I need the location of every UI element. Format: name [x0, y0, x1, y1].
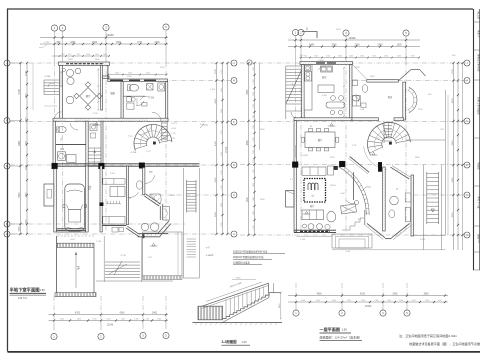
svg-text:1760: 1760: [221, 70, 223, 74]
bedroom bottom wall: [394, 118, 404, 121]
door arc bath: [128, 192, 139, 197]
svg-text:1300: 1300: [410, 56, 414, 58]
outdoor stair along west wall: [286, 66, 302, 119]
svg-text:650: 650: [253, 160, 255, 163]
svg-text:1200: 1200: [253, 125, 255, 129]
right plan: wall under kitchen: [294, 118, 352, 121]
svg-text:5800: 5800: [19, 192, 21, 198]
svg-text:3-3剖面图: 3-3剖面图: [222, 339, 238, 344]
svg-text:3000: 3000: [215, 177, 217, 183]
svg-text:-1.750: -1.750: [92, 113, 99, 115]
svg-text:2260: 2260: [354, 45, 360, 47]
svg-text:1400: 1400: [157, 319, 161, 321]
right plan bottom dimension chains: [288, 294, 448, 309]
scattered tiny annotation texts: [68, 29, 456, 259]
right plan axis circles top: [292, 29, 409, 36]
svg-text:1800: 1800: [77, 319, 81, 321]
svg-text:4000: 4000: [452, 212, 454, 218]
svg-text:1760: 1760: [452, 69, 454, 75]
closet south wall: [102, 224, 126, 226]
svg-text:1400: 1400: [301, 300, 305, 302]
svg-text:2400: 2400: [25, 117, 27, 123]
left plan: bottom wall of middle band: [53, 164, 199, 166]
svg-text:3800: 3800: [423, 294, 429, 296]
svg-text:2400: 2400: [25, 219, 27, 225]
svg-text:=2450: =2450: [171, 128, 176, 130]
svg-text:1400: 1400: [253, 183, 255, 187]
svg-text:1.4B: 1.4B: [200, 124, 205, 126]
garage west wall: [54, 169, 57, 232]
left plan axis circles bottom: [51, 332, 169, 339]
notes bottom right: [399, 333, 480, 346]
svg-text:1200: 1200: [253, 104, 255, 108]
svg-text:2.2M: 2.2M: [110, 173, 115, 175]
svg-text:1.130: 1.130: [44, 42, 50, 44]
stair section: railing with balusters: [202, 283, 281, 317]
svg-text:2440: 2440: [309, 45, 315, 47]
svg-text:13440: 13440: [348, 36, 356, 40]
chain segment texts additional: [60, 54, 442, 321]
bathroom bay: lower diagonal and south wall: [126, 221, 171, 238]
svg-text:1.4B: 1.4B: [360, 109, 365, 111]
svg-text:4460: 4460: [19, 140, 21, 146]
entry steps below plan: [96, 236, 173, 282]
right plan axis circles right column: [464, 60, 470, 238]
svg-text:1240: 1240: [314, 56, 318, 58]
left plan: top-right wall band with windows: [108, 79, 168, 82]
top-right bedroom walls: [353, 65, 426, 120]
internal dim line living room: [97, 68, 99, 111]
right plan: top wall with window band: [300, 62, 353, 65]
bedroom closet and bath fixtures: [353, 85, 368, 108]
svg-text:2.130: 2.130: [171, 133, 176, 135]
svg-text:D: D: [6, 165, 8, 168]
svg-text:2280: 2280: [70, 42, 76, 44]
svg-text:14040: 14040: [106, 33, 114, 37]
svg-text:2150: 2150: [221, 152, 223, 156]
left plan right dimension chains: [215, 62, 229, 235]
svg-text:1300: 1300: [253, 137, 255, 141]
title block strip right edge: [473, 9, 480, 270]
svg-text:1200: 1200: [253, 150, 255, 154]
small label above stair detail: [232, 278, 256, 280]
hall column wall: [383, 167, 386, 231]
svg-text:一层平面图: 一层平面图: [320, 326, 340, 332]
svg-text:4140: 4140: [119, 313, 125, 315]
svg-text:-1.750: -1.750: [130, 152, 137, 154]
laundry: washer boxes: [56, 145, 88, 163]
svg-text:1100: 1100: [437, 300, 441, 302]
svg-text:1300: 1300: [92, 319, 96, 321]
dining table with chairs: [301, 129, 339, 151]
svg-text:650: 650: [61, 54, 64, 56]
svg-text:建筑面积：124.37m²（含车库）: 建筑面积：124.37m²（含车库）: [320, 334, 363, 339]
garage east wall: [86, 166, 89, 232]
svg-text:地面做法详见各层平面（图），卫生间地面须节点做法: 地面做法详见各层平面（图），卫生间地面须节点做法: [409, 341, 480, 346]
svg-text:注：卫生间地面须低于其它房间地面4.00m: 注：卫生间地面须低于其它房间地面4.00m: [399, 333, 458, 338]
svg-text:1400: 1400: [425, 300, 429, 302]
svg-text:900: 900: [146, 319, 149, 321]
svg-text:1:50: 1:50: [40, 288, 46, 292]
svg-text:C: C: [466, 194, 468, 197]
svg-text:1770: 1770: [137, 42, 143, 44]
porch steps south: [297, 234, 372, 248]
svg-text:卫: 卫: [396, 188, 398, 191]
closet room west wall: [100, 166, 102, 232]
svg-text:1200: 1200: [372, 56, 376, 58]
left plan title: [10, 287, 47, 301]
svg-text:1200: 1200: [360, 56, 364, 58]
svg-text:7430: 7430: [128, 73, 132, 75]
svg-text:4700: 4700: [75, 313, 81, 315]
east terrace lines: [332, 90, 448, 250]
left plan top dimension chains: [40, 33, 168, 106]
svg-text:4.3M: 4.3M: [322, 95, 327, 97]
svg-text:2400: 2400: [392, 294, 398, 296]
svg-text:4100: 4100: [360, 294, 366, 296]
side exterior stair east: [424, 165, 442, 250]
stair section detail: ground line: [193, 323, 283, 326]
svg-text:1500: 1500: [396, 45, 402, 47]
svg-text:2400: 2400: [377, 45, 383, 47]
svg-text:2150: 2150: [221, 130, 223, 134]
level label above plan: [39, 42, 50, 48]
svg-text:1400: 1400: [361, 300, 365, 302]
svg-text:1300: 1300: [253, 79, 255, 83]
left plan: living room right wall: [101, 65, 103, 110]
svg-text:1600: 1600: [60, 319, 64, 321]
svg-text:4300: 4300: [215, 140, 217, 146]
svg-text:H: H: [233, 80, 235, 83]
svg-text:1200: 1200: [387, 300, 391, 302]
curved glass wall living room: [338, 164, 369, 215]
dining table with four chairs: [74, 82, 102, 110]
column C4 small: [100, 203, 104, 206]
svg-text:3.640: 3.640: [420, 239, 426, 241]
small fixtures below closet: [112, 227, 124, 232]
svg-text:2500: 2500: [25, 164, 27, 170]
internal dim line kitchen: [343, 67, 345, 117]
svg-text:900: 900: [304, 56, 307, 58]
chain above top-right band: [107, 73, 167, 76]
svg-text:1950: 1950: [221, 88, 223, 92]
svg-text:1300: 1300: [411, 300, 415, 302]
svg-text:3000: 3000: [452, 177, 454, 183]
legend annotations: [206, 247, 285, 265]
svg-text:1350: 1350: [253, 169, 255, 173]
svg-text:800: 800: [103, 54, 106, 56]
stair section: baluster block: [198, 306, 223, 320]
svg-text:-1.130: -1.130: [44, 76, 51, 78]
svg-text:3000: 3000: [25, 192, 27, 198]
svg-text:1,730: 1,730: [300, 239, 306, 241]
right plan left dimension chains: [247, 60, 260, 236]
svg-text:P.下: P.下: [206, 247, 210, 250]
interior wall closet/bath: [126, 166, 128, 225]
west bay chimney: [286, 191, 295, 208]
svg-text:950: 950: [77, 54, 80, 56]
right plan axis circles bottom: [293, 310, 410, 316]
svg-text:15440: 15440: [365, 305, 372, 308]
svg-text:1200: 1200: [399, 300, 403, 302]
svg-text:1400: 1400: [253, 197, 255, 201]
svg-text:7000: 7000: [247, 196, 249, 202]
outdoor entry steps left of living room: [44, 76, 60, 95]
svg-text:1500: 1500: [221, 185, 223, 189]
svg-text:D: D: [466, 164, 468, 167]
svg-text:1300: 1300: [134, 319, 138, 321]
column R2: [339, 161, 345, 167]
section mark 1: [302, 27, 317, 38]
west chimney protrusion: [44, 184, 54, 206]
svg-text:1500: 1500: [221, 170, 223, 174]
svg-text:C: C: [233, 194, 235, 197]
small straight stair down: [88, 148, 101, 166]
svg-text:C2430: C2430: [302, 155, 309, 157]
bathroom bay: upper diagonal wall: [144, 194, 160, 206]
svg-text:1500: 1500: [397, 56, 401, 58]
left plan: main middle wall: [53, 118, 168, 121]
right plan right dimension chains: [452, 62, 464, 250]
svg-text:2100: 2100: [25, 70, 27, 76]
stair section: steps: [223, 293, 270, 322]
svg-text:1500: 1500: [253, 225, 255, 229]
lower terrace: [143, 232, 183, 279]
sofa against dining wall: [302, 166, 338, 175]
corner shower: [150, 194, 162, 205]
west outer wall lower: [294, 121, 297, 232]
bath lower fixtures and door: [110, 91, 154, 109]
toilet in bath: [136, 181, 142, 189]
sofa set living room: [302, 204, 336, 229]
bath east wall F: [129, 168, 155, 201]
svg-text:1760: 1760: [215, 69, 217, 75]
column C3: [139, 163, 144, 168]
spiral staircase left plan: [130, 121, 177, 154]
small bath fixtures: [352, 80, 360, 102]
svg-text:C1520: C1520: [318, 60, 325, 62]
left plan: axis grid dashed lines: [10, 31, 234, 330]
svg-text:-1.730: -1.730: [120, 255, 127, 257]
svg-text:800: 800: [95, 54, 98, 56]
corridor wall: [101, 121, 103, 166]
svg-text:H: H: [466, 80, 468, 83]
svg-text:D: D: [233, 164, 235, 167]
wall segment left of spiral: [352, 118, 379, 121]
svg-text:1060: 1060: [115, 73, 119, 75]
svg-text:900: 900: [253, 115, 255, 118]
svg-text:1,730: 1,730: [96, 241, 102, 243]
svg-text:1600: 1600: [316, 300, 320, 302]
svg-text:17100: 17100: [226, 146, 228, 153]
bath bottom-right walls: [391, 166, 414, 237]
svg-text:+0.00: +0.00: [345, 251, 351, 253]
left plan left dimension chains: [19, 62, 33, 235]
svg-text:1600: 1600: [332, 300, 336, 302]
svg-text:1400: 1400: [121, 319, 125, 321]
stair detail title: [222, 339, 251, 345]
svg-text:2200: 2200: [221, 109, 223, 113]
bath fixtures top-right: [128, 83, 165, 91]
svg-text:4050: 4050: [452, 98, 454, 104]
svg-text:卫: 卫: [129, 197, 131, 200]
car in garage: [63, 184, 92, 231]
left plan: connector wall living/bath: [103, 76, 109, 79]
svg-text:1:20: 1:20: [242, 341, 247, 344]
bath tub circles: [141, 223, 159, 231]
svg-text:5800: 5800: [247, 89, 249, 95]
svg-text:2000: 2000: [221, 203, 223, 207]
courtyard below garage: [55, 236, 96, 297]
svg-text:半地下室平面图: 半地下室平面图: [10, 287, 41, 294]
sitting group: round chairs and plant: [62, 68, 81, 104]
svg-text:14x175: 14x175: [171, 123, 177, 125]
svg-text:1: 1: [306, 27, 308, 31]
left plan: right outer wall: [165, 82, 167, 121]
svg-text:4360: 4360: [247, 139, 249, 145]
left plan: living room left wall: [60, 65, 63, 119]
bedroom south edge line: [405, 139, 445, 141]
door arc into hall: [152, 112, 161, 121]
svg-text:4400: 4400: [452, 140, 454, 146]
bathroom bay: east wall and bump window: [160, 204, 169, 220]
left plan axis circles left column: [4, 60, 21, 237]
patterned rug / piano: [304, 179, 326, 203]
svg-text:1000: 1000: [19, 226, 21, 232]
right plan: west outer wall: [302, 65, 305, 120]
left plan: west outer wall middle: [53, 121, 56, 166]
garage apron dashes: [57, 235, 94, 237]
svg-text:1200: 1200: [326, 56, 330, 58]
svg-text:750: 750: [68, 54, 71, 56]
exterior side stair right of plan: [183, 168, 199, 278]
svg-text:1500: 1500: [116, 42, 122, 44]
south bay octagon corners: [365, 210, 412, 240]
column R3 top: [378, 162, 382, 171]
wall kitchen/bath: [350, 65, 353, 120]
right plan top dimension chains: [288, 36, 420, 58]
wall between laundry and stair hall: [86, 121, 88, 166]
kitchen counters and appliances: [304, 65, 332, 110]
svg-text:1000: 1000: [86, 54, 90, 56]
curved window seat bay: [408, 87, 417, 112]
svg-text:2640: 2640: [92, 42, 98, 44]
svg-text:1.7M: 1.7M: [171, 138, 175, 140]
column C2: [99, 163, 105, 169]
svg-text:1500: 1500: [106, 319, 110, 321]
stair section: dimensions: [206, 282, 282, 320]
spiral staircase right plan: [364, 121, 411, 169]
washbasin room fixtures: [90, 124, 97, 138]
svg-text:1900: 1900: [221, 222, 223, 226]
svg-text:2500: 2500: [331, 45, 337, 47]
svg-text:4600: 4600: [316, 294, 322, 296]
small bath middle: toilet and door: [57, 123, 78, 141]
svg-text:1200: 1200: [384, 56, 388, 58]
svg-text:133.7m²: 133.7m²: [18, 297, 27, 300]
column R1: [292, 162, 298, 168]
svg-text:1400: 1400: [347, 300, 351, 302]
right plan: axis grid dashed: [240, 36, 470, 310]
svg-text:1400: 1400: [253, 211, 255, 215]
left plan axis circles right column: [231, 60, 237, 237]
left plan: living room top wall with window band: [59, 62, 110, 65]
left plan bottom dimension chains: [49, 313, 169, 327]
svg-text:1:100: 1:100: [210, 89, 216, 91]
svg-text:1060: 1060: [349, 56, 353, 58]
svg-text:1300: 1300: [374, 300, 378, 302]
svg-text:1200: 1200: [253, 67, 255, 71]
entry vestibule walls: [341, 157, 370, 231]
left plan: living room bottom-left door arc: [55, 112, 62, 119]
svg-text:2400: 2400: [25, 93, 27, 99]
garage door: [56, 229, 85, 232]
assorted leader marks and elevation symbols: [93, 67, 378, 246]
svg-text:4150: 4150: [215, 98, 217, 104]
svg-text:2300: 2300: [25, 140, 27, 146]
right plan title: [320, 326, 363, 340]
kitchen island and family table: [318, 85, 345, 115]
svg-text:1300: 1300: [338, 56, 342, 58]
south wall living room: [294, 230, 336, 232]
svg-text:14550: 14550: [330, 185, 336, 187]
left plan: wall between hall and bath: [121, 82, 123, 119]
column C1: [52, 163, 58, 169]
svg-text:3900: 3900: [215, 211, 217, 217]
svg-text:1:50: 1:50: [342, 328, 348, 332]
svg-text:1200: 1200: [253, 92, 255, 96]
svg-text:5740: 5740: [19, 88, 21, 94]
bath fixtures bottom-right: [389, 188, 411, 222]
svg-text:2400: 2400: [152, 313, 158, 315]
svg-text:5240: 5240: [146, 73, 150, 75]
svg-text:11240: 11240: [107, 324, 114, 327]
left plan axis circles top: [51, 24, 169, 31]
svg-text:2400: 2400: [154, 42, 160, 44]
closet shelf and wardrobe: [103, 179, 125, 225]
